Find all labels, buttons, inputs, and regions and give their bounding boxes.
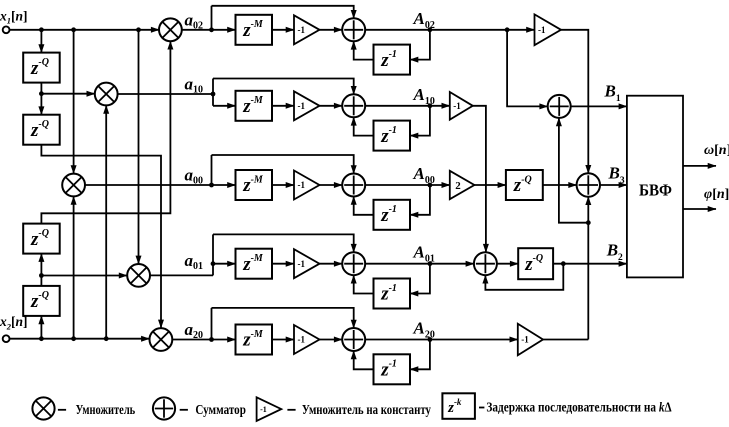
wire x1 to z-Q1 bbox=[40, 30, 42, 53]
svg-text:φ[n]: φ[n] bbox=[704, 187, 729, 202]
wire to z-Q2 bbox=[40, 94, 42, 115]
wire z-1 to adder bottom row r5 bbox=[354, 351, 374, 369]
svg-text:-1: -1 bbox=[298, 180, 306, 190]
wire B3 bottom input bbox=[587, 197, 589, 223]
wire node to z-M row r3 bbox=[212, 184, 236, 186]
multiplier M3 (a00 product) bbox=[62, 174, 85, 197]
wire x2 direct to M3 bottom bbox=[73, 197, 75, 339]
node row r3 bbox=[209, 183, 214, 188]
wire multiplier out row r3 bbox=[85, 184, 212, 186]
svg-text:2: 2 bbox=[455, 180, 461, 192]
wire z-Q2 out to M5 top bbox=[41, 145, 161, 328]
delay z^-1 row r5 bbox=[374, 354, 411, 384]
wire x2 to z-Q4 bbox=[40, 316, 42, 339]
gain -1 top right bbox=[535, 14, 562, 45]
node row r4 bbox=[211, 261, 216, 266]
wire node to z-M row r1 bbox=[212, 29, 236, 31]
wire z-M to -1 row r5 bbox=[272, 339, 294, 341]
wire -1 to adder row r1 bbox=[320, 29, 343, 31]
svg-text:Умножитель: Умножитель bbox=[76, 403, 136, 418]
wire A00 out bbox=[365, 184, 450, 186]
svg-text:-1: -1 bbox=[298, 25, 306, 35]
wire multiplier out row r5 bbox=[172, 339, 211, 341]
wire z-1 to adder bottom row r4 bbox=[354, 275, 374, 293]
wire x1 input line bbox=[10, 29, 160, 31]
wire multiplier out row r2 bbox=[118, 93, 213, 95]
wire B3 to BVF bbox=[600, 184, 627, 186]
wire 2 to z-Q right bbox=[474, 184, 506, 186]
wire -1 to adder row r3 bbox=[320, 184, 343, 186]
svg-text:-1: -1 bbox=[453, 101, 461, 111]
gain 2 right row3 bbox=[450, 171, 475, 199]
node row r1 bbox=[209, 27, 214, 32]
delay z^-1 row r1 bbox=[374, 45, 411, 75]
wire bypass vertical row r3 bbox=[211, 155, 213, 185]
delay z^-M row r4 bbox=[236, 249, 273, 279]
wire node to z-M row r4 bbox=[213, 263, 236, 265]
adder row r2 bbox=[342, 94, 365, 117]
svg-text:Сумматор: Сумматор bbox=[195, 403, 246, 418]
wire -1R1 to B3 top bbox=[561, 30, 588, 174]
wire -1 to adder row r5 bbox=[320, 339, 343, 341]
wire B1 bottom input bbox=[559, 118, 588, 223]
gain -1 row r3 bbox=[294, 171, 320, 200]
delay z^-1 row r4 bbox=[374, 279, 411, 309]
wire -1R5 out bbox=[543, 339, 588, 341]
wire bypass vertical row r5 bbox=[211, 308, 213, 340]
svg-text:БВФ: БВФ bbox=[639, 180, 672, 199]
input terminal x1[n] bbox=[3, 26, 10, 33]
input terminal x2[n] bbox=[3, 335, 10, 342]
node x1 delayed Q bbox=[39, 91, 44, 96]
wire z-1 to adder bottom row r1 bbox=[354, 41, 374, 59]
wire jog row r2 bbox=[212, 79, 214, 106]
gain -1 right row2 bbox=[450, 92, 473, 120]
legend dash 3 bbox=[287, 409, 295, 411]
wire output omega bbox=[683, 165, 716, 167]
svg-text:Умножитель на константу: Умножитель на константу bbox=[302, 403, 431, 418]
wire z-Q to B3 bbox=[543, 184, 577, 186]
wire z-M to -1 row r4 bbox=[272, 263, 294, 265]
adder row r3 bbox=[342, 174, 365, 197]
wire multiplier out row r4 bbox=[150, 274, 213, 276]
wire x2 direct to M2 bottom bbox=[105, 105, 107, 338]
wire x1 direct to M3 top bbox=[73, 30, 75, 174]
wire A02 to -1R1 bbox=[507, 29, 534, 31]
multiplier M4 (a01 product) bbox=[127, 264, 150, 287]
wire feedback down row r2 bbox=[410, 106, 430, 136]
wire z-Q3 out to M1 bottom bbox=[41, 41, 170, 223]
svg-text:-1: -1 bbox=[260, 405, 267, 414]
wire z-Q4 out bbox=[40, 276, 42, 286]
wire node to z-M row r5 bbox=[212, 339, 236, 341]
wire jog row r4 bbox=[212, 234, 214, 275]
multiplier M5 (a20 product) bbox=[150, 328, 173, 351]
feedback tap row r2 bbox=[428, 103, 433, 108]
svg-text:-1: -1 bbox=[538, 25, 546, 35]
node B2 feedback tap bbox=[561, 261, 566, 266]
delay z^-Q 3 bbox=[23, 224, 60, 254]
wire to z-Q3 bbox=[40, 254, 42, 276]
adder B1 bbox=[548, 95, 571, 118]
wire z-1 to adder bottom row r2 bbox=[354, 117, 374, 135]
adder row r1 bbox=[342, 18, 365, 41]
wire z-1 to adder bottom row r3 bbox=[354, 197, 374, 215]
legend gain symbol bbox=[257, 397, 282, 421]
wire bypass vertical row r1 bbox=[211, 6, 213, 30]
node on x2 line at delay chain bbox=[39, 336, 44, 341]
node x2 delayed Q bbox=[39, 273, 44, 278]
wire feedback down row r3 bbox=[410, 185, 430, 215]
delay z^-M row r3 bbox=[236, 170, 273, 200]
node on x2 line feeding M3 bbox=[71, 336, 76, 341]
adder B3 bbox=[577, 173, 600, 196]
node on x1 line feeding M4 bbox=[136, 27, 141, 32]
node on x2 line feeding M2 bbox=[104, 336, 109, 341]
delay z^-1 row r2 bbox=[374, 121, 411, 151]
delay z^-Q 4 bbox=[23, 286, 60, 316]
wire A02 out bbox=[365, 29, 507, 31]
legend dash 1 bbox=[58, 409, 66, 411]
adder row r5 bbox=[342, 328, 365, 351]
wire feedback down row r1 bbox=[410, 30, 430, 60]
feedback tap row r4 bbox=[428, 261, 433, 266]
node row r2 bbox=[211, 92, 216, 97]
wire output phi bbox=[683, 208, 716, 210]
block BVF bbox=[627, 96, 683, 278]
wire x2 input line bbox=[10, 338, 150, 340]
gain -1 row r1 bbox=[294, 15, 320, 44]
svg-text:Задержка последовательности на: Задержка последовательности на kΔ bbox=[486, 401, 671, 416]
wire bypass over z-M row r1 bbox=[212, 6, 354, 18]
wire A01 out bbox=[365, 263, 474, 265]
wire to multiplier M4 bbox=[41, 275, 127, 277]
delay z^-Q 1 bbox=[23, 53, 60, 83]
legend dash 4 bbox=[479, 407, 484, 409]
delay z^-Q right row3 bbox=[506, 170, 543, 200]
wire z-M to -1 row r2 bbox=[272, 105, 294, 107]
wire bypass over z-M row r3 bbox=[212, 155, 354, 174]
wire -1 to adder row r4 bbox=[320, 263, 343, 265]
node on x1 line at delay chain bbox=[39, 27, 44, 32]
wire -1 to adder row r2 bbox=[320, 105, 343, 107]
wire feedback down row r5 bbox=[410, 340, 430, 370]
wire -1R5 riser bbox=[587, 223, 589, 340]
wire B1 to BVF bbox=[571, 105, 627, 107]
delay z^-1 row r3 bbox=[374, 200, 411, 230]
wire A10 out bbox=[365, 105, 450, 107]
wire to multiplier M2 bbox=[41, 93, 94, 95]
svg-text:-1: -1 bbox=[521, 335, 529, 345]
delay z^-Q right row4 bbox=[518, 248, 553, 279]
adder row r4 bbox=[342, 252, 365, 275]
legend delay symbol bbox=[442, 393, 475, 419]
gain -1 row r2 bbox=[294, 91, 320, 120]
gain -1 right row5 bbox=[518, 324, 543, 356]
wire feedback down row r4 bbox=[410, 264, 430, 294]
delay z^-M row r5 bbox=[236, 325, 273, 355]
node on x1 line feeding M3 bbox=[71, 27, 76, 32]
svg-text:ω[n]: ω[n] bbox=[704, 143, 729, 158]
wire A20 out bbox=[365, 339, 518, 341]
wire z-M to -1 row r1 bbox=[272, 29, 294, 31]
wire z-Q4R to BVF (B2) bbox=[553, 263, 627, 265]
wire A02 down to B1 bbox=[507, 30, 548, 107]
legend adder symbol bbox=[153, 397, 175, 419]
feedback tap row r5 bbox=[428, 337, 433, 342]
wire bypass over z-M row r4 bbox=[213, 234, 354, 252]
svg-text:-1: -1 bbox=[298, 335, 306, 345]
wire -1R2 down to adder B2row top bbox=[473, 106, 486, 252]
adder row4 right bbox=[474, 252, 497, 275]
node A02 split bbox=[505, 27, 510, 32]
wire node to z-M row r2 bbox=[213, 105, 236, 107]
wire multiplier out row r1 bbox=[182, 29, 212, 31]
svg-text:-1: -1 bbox=[298, 101, 306, 111]
wire adder4 to z-Q right bbox=[497, 263, 518, 265]
wire x1 direct to M4 top bbox=[138, 30, 140, 264]
multiplier M2 (a10 product) bbox=[95, 83, 118, 106]
svg-text:x1[n]: x1[n] bbox=[0, 8, 28, 25]
legend multiplier symbol bbox=[32, 397, 54, 419]
gain -1 row r5 bbox=[294, 325, 320, 354]
gain -1 row r4 bbox=[294, 249, 320, 278]
node row r5 bbox=[209, 337, 214, 342]
feedback tap row r3 bbox=[428, 183, 433, 188]
svg-text:-1: -1 bbox=[298, 259, 306, 269]
feedback tap row r1 bbox=[428, 27, 433, 32]
multiplier M1 (a02 product) bbox=[159, 18, 182, 41]
legend dash 2 bbox=[180, 409, 188, 411]
delay z^-Q 2 bbox=[23, 115, 60, 145]
wire bypass over z-M row r5 bbox=[212, 308, 354, 328]
wire bypass over z-M row r2 bbox=[213, 79, 354, 95]
delay z^-M row r1 bbox=[236, 15, 273, 45]
wire B2 feedback bbox=[485, 264, 563, 290]
delay z^-M row r2 bbox=[236, 91, 273, 121]
node at B3 feed split bbox=[586, 220, 591, 225]
wire z-M to -1 row r3 bbox=[272, 184, 294, 186]
wire z-Q1 out bbox=[40, 83, 42, 94]
